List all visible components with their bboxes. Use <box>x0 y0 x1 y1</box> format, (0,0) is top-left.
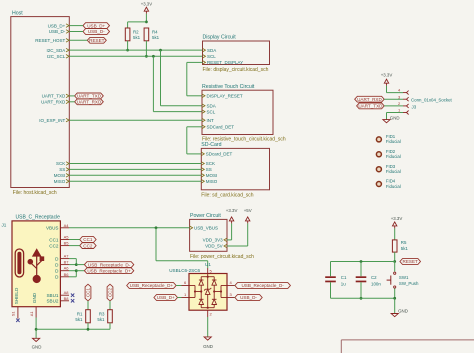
svg-text:SD-Card: SD-Card <box>201 142 221 148</box>
label USB_Receptacle_D+ <box>127 283 176 289</box>
svg-text:R2: R2 <box>133 30 139 35</box>
sheet pin USB_VBUS <box>190 226 193 230</box>
svg-text:USB_VBUS: USB_VBUS <box>194 226 218 231</box>
wire <box>160 50 162 106</box>
wire <box>145 41 147 57</box>
svg-text:CC2: CC2 <box>83 243 93 248</box>
wire <box>360 282 362 298</box>
wire <box>109 323 111 330</box>
junction <box>145 55 148 58</box>
svg-text:File: power_circuit.kicad_sch: File: power_circuit.kicad_sch <box>190 254 254 260</box>
label CC1 <box>80 237 96 243</box>
no-connect <box>16 319 19 322</box>
svg-text:MOSI: MOSI <box>54 173 66 178</box>
wire <box>69 258 76 260</box>
wire <box>176 285 181 287</box>
label RESET <box>400 259 421 265</box>
svg-text:A8: A8 <box>64 290 70 295</box>
svg-text:USB_C_Receptacle: USB_C_Receptacle <box>16 214 61 220</box>
svg-text:SBU2: SBU2 <box>46 299 58 304</box>
svg-text:USB_Receptacle_D-: USB_Receptacle_D- <box>241 283 284 288</box>
svg-text:100n: 100n <box>371 281 381 286</box>
sheet Resistive Touch Circuit <box>202 90 273 134</box>
svg-text:A7: A7 <box>64 254 70 259</box>
svg-text:IO_EXP_INT: IO_EXP_INT <box>39 118 65 123</box>
wire <box>394 252 396 261</box>
USB trident glyph <box>28 250 44 283</box>
wire <box>247 223 249 246</box>
sheet pin SS <box>201 168 204 172</box>
svg-text:Fiducial: Fiducial <box>386 154 401 159</box>
wire <box>156 260 208 262</box>
label UART_TXD <box>75 93 104 99</box>
junction <box>87 328 90 331</box>
svg-text:Display Circuit: Display Circuit <box>203 35 237 41</box>
sheet Power Circuit <box>190 219 227 251</box>
wire <box>384 98 403 100</box>
svg-text:R4: R4 <box>152 30 158 35</box>
wire <box>207 261 209 268</box>
svg-text:USB_D+: USB_D+ <box>48 23 66 28</box>
pin 5 <box>207 268 209 277</box>
svg-text:DISPLAY_RESET: DISPLAY_RESET <box>207 94 243 99</box>
svg-text:GND: GND <box>398 308 408 313</box>
label USB_Receptacle_D- <box>235 283 291 289</box>
svg-text:5k1: 5k1 <box>133 35 141 40</box>
svg-text:USB_Receptacle_D-: USB_Receptacle_D- <box>88 262 131 267</box>
sheet pin SDA <box>202 104 205 108</box>
sheet pin SDA <box>203 48 206 52</box>
svg-text:SCK: SCK <box>206 161 215 166</box>
svg-text:+5V: +5V <box>244 208 252 213</box>
svg-text:USB_D-: USB_D- <box>88 29 105 34</box>
fiducial FID1 <box>376 137 381 142</box>
wire <box>69 101 74 103</box>
svg-text:SBU1: SBU1 <box>46 293 58 298</box>
wire <box>127 22 129 28</box>
svg-text:GND: GND <box>32 292 37 303</box>
sheet pin INT <box>202 118 205 122</box>
label UART_TXD <box>357 103 385 109</box>
pin 4 <box>403 92 407 94</box>
pin A1 GND <box>35 307 37 318</box>
wire rail top <box>331 261 395 263</box>
svg-text:VDD_3V3: VDD_3V3 <box>203 238 224 243</box>
pin B5 CC2 <box>60 245 69 247</box>
svg-text:CC1: CC1 <box>86 288 91 298</box>
wire VBUS <box>69 227 190 229</box>
wire <box>234 297 236 299</box>
svg-text:GND: GND <box>32 344 42 349</box>
sheet pin VDD_3V3 <box>224 238 227 242</box>
pin B8 SBU2 <box>60 300 69 302</box>
svg-text:UART_TXD: UART_TXD <box>42 94 66 99</box>
pin 3 <box>227 297 235 299</box>
pin A6 D <box>60 270 69 272</box>
wire <box>387 112 404 114</box>
title block frame <box>341 339 474 341</box>
junction <box>35 328 38 331</box>
svg-text:CC2: CC2 <box>49 243 59 248</box>
svg-text:5k1: 5k1 <box>152 35 160 40</box>
svg-text:GND: GND <box>203 344 213 349</box>
svg-text:SW_Push: SW_Push <box>399 281 419 286</box>
resistor R3 <box>108 310 113 323</box>
svg-text:USB_D-: USB_D- <box>240 295 257 300</box>
svg-text:SW1: SW1 <box>399 275 409 280</box>
svg-text:S1: S1 <box>11 311 16 317</box>
svg-text:UART_TXD: UART_TXD <box>358 104 383 109</box>
junction <box>360 297 363 300</box>
wire <box>87 301 89 310</box>
sheet pin MOSI <box>201 174 204 178</box>
wire <box>145 14 147 22</box>
svg-text:SHIELD: SHIELD <box>14 287 19 304</box>
svg-text:CC2: CC2 <box>108 288 113 298</box>
junction <box>393 260 396 263</box>
no-connect <box>71 294 74 297</box>
wire <box>69 31 83 33</box>
wire I2C_SDA <box>69 49 202 51</box>
pin S1 SHIELD <box>17 307 19 319</box>
svg-text:INT: INT <box>207 118 215 123</box>
junction <box>159 49 162 52</box>
ground <box>391 314 398 317</box>
wire <box>69 276 76 278</box>
svg-text:I2C_SDA: I2C_SDA <box>47 48 66 53</box>
pin B6 D <box>60 276 69 278</box>
svg-text:Fiducial: Fiducial <box>386 139 401 144</box>
svg-text:UART_RXD: UART_RXD <box>41 100 66 105</box>
wire <box>234 285 236 287</box>
svg-text:RESET: RESET <box>403 259 419 264</box>
label UART_RXD <box>355 96 385 102</box>
svg-text:SDCard_DET: SDCard_DET <box>207 125 235 130</box>
wire <box>153 111 202 113</box>
pin 3 <box>403 98 407 100</box>
junction <box>155 226 158 229</box>
junction <box>75 269 78 272</box>
svg-text:VBUS: VBUS <box>46 226 59 231</box>
wire <box>187 61 203 63</box>
resistor R1 <box>86 310 91 323</box>
label USB_D- <box>83 29 110 35</box>
pin A5 CC1 <box>60 239 69 241</box>
label USB_D+ <box>154 295 178 301</box>
wire <box>394 289 396 299</box>
label USB_Receptacle_D- <box>84 262 133 268</box>
label RESET <box>87 37 106 43</box>
svg-text:+3.3V: +3.3V <box>391 216 403 221</box>
svg-text:5k1: 5k1 <box>401 246 409 251</box>
svg-text:5k1: 5k1 <box>75 317 83 322</box>
wire <box>69 270 76 272</box>
label UART_RXD <box>75 99 104 105</box>
svg-text:U1: U1 <box>205 262 211 267</box>
svg-text:MOSI: MOSI <box>206 173 218 178</box>
svg-text:B5: B5 <box>64 241 70 246</box>
junction <box>145 21 148 24</box>
pin 2 <box>403 105 407 107</box>
wire <box>187 153 202 155</box>
svg-text:Resistive Touch Circuit: Resistive Touch Circuit <box>202 84 255 90</box>
svg-text:File: host.kicad_sch: File: host.kicad_sch <box>13 190 57 196</box>
svg-text:SCL: SCL <box>207 54 216 59</box>
wire <box>186 127 188 154</box>
svg-text:SS: SS <box>206 167 212 172</box>
pin 1 <box>182 297 190 299</box>
wire SCK <box>69 163 201 165</box>
wire <box>330 262 332 277</box>
svg-text:+3.3V: +3.3V <box>381 72 393 77</box>
svg-text:C2: C2 <box>371 275 377 280</box>
wire GND rail <box>36 328 110 330</box>
svg-text:Fiducial: Fiducial <box>386 169 401 174</box>
svg-text:MISO: MISO <box>206 179 218 184</box>
svg-text:A4: A4 <box>64 223 70 228</box>
wire <box>87 323 89 330</box>
svg-text:SDA: SDA <box>207 48 216 53</box>
resistor R4 <box>144 28 149 41</box>
wire <box>69 95 74 97</box>
svg-text:RESET_DISPLAY: RESET_DISPLAY <box>207 60 243 65</box>
pin A8 SBU1 <box>60 294 69 296</box>
svg-text:RESET: RESET <box>89 38 105 43</box>
sheet pin MISO <box>201 180 204 184</box>
capacitor C1 <box>325 276 336 278</box>
label CC2 vertical <box>107 284 113 301</box>
wire <box>69 239 80 241</box>
sheet pin SCK <box>201 162 204 166</box>
svg-text:Host: Host <box>12 11 23 17</box>
svg-text:A5: A5 <box>64 235 70 240</box>
svg-text:USB_D+: USB_D+ <box>87 23 105 28</box>
fiducial FID3 <box>376 167 381 172</box>
svg-text:CC1: CC1 <box>83 237 93 242</box>
svg-text:File: sd_card.kicad_sch: File: sd_card.kicad_sch <box>201 193 253 199</box>
wire <box>127 41 129 50</box>
junction <box>393 297 396 300</box>
svg-text:SS: SS <box>59 167 65 172</box>
capacitor C2 <box>356 276 367 278</box>
wire <box>231 223 233 240</box>
svg-text:5k1: 5k1 <box>97 317 105 322</box>
svg-text:C1: C1 <box>341 275 347 280</box>
sheet pin SCL <box>202 110 205 114</box>
svg-text:J1: J1 <box>2 223 7 228</box>
svg-text:+3.3V: +3.3V <box>226 208 238 213</box>
pin 4 <box>227 285 235 287</box>
svg-text:RESET_HOST: RESET_HOST <box>35 38 65 43</box>
wire <box>128 21 147 23</box>
ground <box>204 337 211 340</box>
svg-text:USBLC6-2SC6: USBLC6-2SC6 <box>169 268 200 273</box>
sheet pin SDcard_DET <box>201 152 204 156</box>
wire SS <box>69 168 201 170</box>
label USB_D- <box>235 295 262 301</box>
switch SW1 SW_Push <box>394 262 396 272</box>
ground <box>383 120 390 123</box>
junction <box>126 49 129 52</box>
wire <box>360 262 362 277</box>
wire <box>186 62 188 95</box>
fiducial FID2 <box>376 152 381 157</box>
svg-text:GND: GND <box>390 116 400 121</box>
svg-text:R1: R1 <box>77 311 83 316</box>
pin 6 <box>182 285 190 287</box>
svg-text:Power Circuit: Power Circuit <box>190 213 221 219</box>
wire <box>152 56 154 111</box>
svg-text:R5: R5 <box>401 240 407 245</box>
pin 1 <box>403 112 407 114</box>
svg-text:CC1: CC1 <box>49 237 59 242</box>
svg-text:I2C_SCL: I2C_SCL <box>47 54 66 59</box>
wire <box>76 270 84 272</box>
wire <box>69 39 87 41</box>
diode array internals <box>201 276 214 278</box>
svg-text:SDcard_DET: SDcard_DET <box>206 152 233 157</box>
svg-text:B7: B7 <box>64 260 70 265</box>
sheet Display Circuit <box>203 41 270 65</box>
svg-text:A6: A6 <box>64 266 70 271</box>
wire <box>69 25 83 27</box>
junction <box>360 260 363 263</box>
svg-text:SCK: SCK <box>56 161 65 166</box>
svg-text:A1: A1 <box>29 311 34 317</box>
svg-text:1u: 1u <box>341 281 346 286</box>
wire <box>187 95 202 97</box>
sheet pin DISPLAY_RESET <box>202 94 205 98</box>
pin A7 D <box>60 258 69 260</box>
ground <box>33 338 40 341</box>
wire <box>386 86 388 93</box>
svg-text:MISO: MISO <box>54 179 66 184</box>
wire <box>69 245 80 247</box>
wire I2C_SCL <box>69 55 202 57</box>
svg-text:USB_Receptacle_D+: USB_Receptacle_D+ <box>130 283 174 288</box>
wire IO_EXP_INT <box>69 119 202 121</box>
svg-text:UART_RXD: UART_RXD <box>357 97 382 102</box>
wire <box>161 105 203 107</box>
svg-text:UART_RXD: UART_RXD <box>77 100 102 105</box>
sheet SD-Card <box>201 148 269 189</box>
svg-text:Fiducial: Fiducial <box>386 184 401 189</box>
svg-text:VDD_5V: VDD_5V <box>205 244 223 249</box>
wire <box>76 264 84 266</box>
sheet pin SCL <box>203 55 206 59</box>
svg-text:B8: B8 <box>64 296 70 301</box>
wire MISO <box>69 180 201 182</box>
junction <box>152 55 155 58</box>
wire <box>207 317 209 337</box>
svg-text:UART_TXD: UART_TXD <box>77 94 102 99</box>
wire <box>178 297 182 299</box>
svg-text:SDA: SDA <box>207 103 216 108</box>
wire <box>384 105 403 107</box>
svg-text:File: display_circuit.kicad_sc: File: display_circuit.kicad_sch <box>203 67 269 73</box>
svg-text:USB_Receptacle_D+: USB_Receptacle_D+ <box>87 268 131 273</box>
svg-text:Conn_01x04_Socket: Conn_01x04_Socket <box>411 97 453 102</box>
wire <box>330 282 332 298</box>
fiducial FID4 <box>376 182 381 187</box>
USB-C plug glyph <box>15 249 23 277</box>
resistor R2 <box>125 28 130 41</box>
wire <box>187 126 202 128</box>
svg-text:+3.3V: +3.3V <box>141 2 152 7</box>
pin B7 D <box>60 264 69 266</box>
pin 2 <box>207 310 209 317</box>
label CC2 <box>80 243 96 249</box>
wire rail bottom <box>331 297 395 299</box>
wire <box>35 318 37 339</box>
wire <box>394 228 396 240</box>
svg-text:USB_D-: USB_D- <box>49 29 66 34</box>
junction <box>75 263 78 266</box>
svg-text:J3: J3 <box>412 105 417 110</box>
sheet Host <box>11 17 70 188</box>
wire MOSI <box>69 174 201 176</box>
svg-text:USB_D+: USB_D+ <box>157 295 175 300</box>
wire <box>155 228 157 261</box>
pin A4 VBUS <box>60 227 69 229</box>
no-connect <box>71 299 74 302</box>
svg-text:SCL: SCL <box>207 109 216 114</box>
svg-text:R3: R3 <box>99 311 105 316</box>
wire <box>69 264 76 266</box>
sheet pin RESET_DISPLAY <box>203 61 206 65</box>
resistor R5 <box>392 240 397 252</box>
sheet pin VDD_5V <box>224 244 227 248</box>
label USB_D+ <box>83 23 110 29</box>
wire <box>394 298 396 313</box>
wire <box>109 301 111 310</box>
svg-text:B6: B6 <box>64 272 70 277</box>
label CC1 vertical <box>85 284 91 301</box>
sheet pin SDCard_DET <box>202 125 205 129</box>
label USB_Receptacle_D+ <box>84 268 133 274</box>
